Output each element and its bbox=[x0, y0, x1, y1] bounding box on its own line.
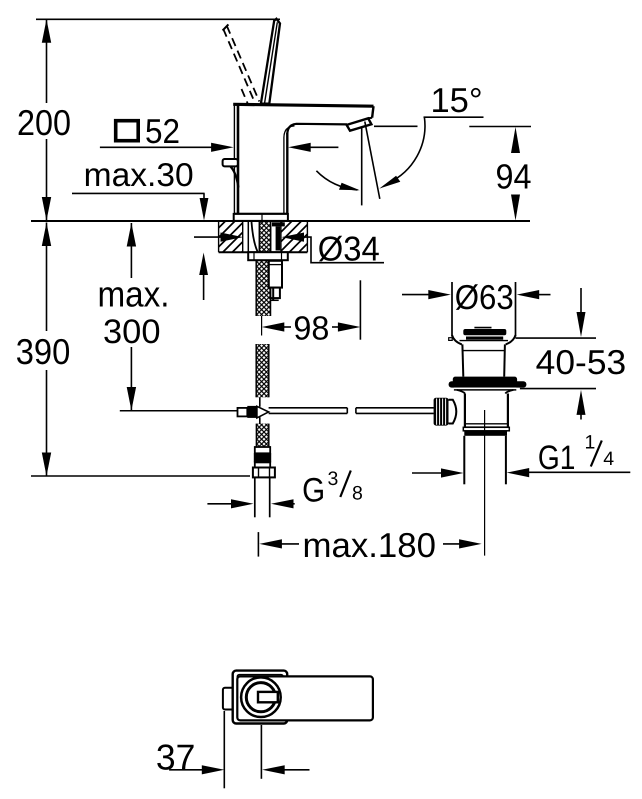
valve seal black bbox=[453, 377, 517, 385]
body right edge outer bbox=[286, 133, 288, 214]
body left edge inner bbox=[237, 104, 240, 214]
390 dimension line bbox=[46, 223, 48, 477]
valve collar bbox=[463, 427, 509, 431]
Ø34 leader bbox=[302, 237, 384, 263]
side tab bbox=[223, 159, 238, 166]
spout mousseur bbox=[347, 118, 372, 130]
seal cone in hole bbox=[247, 222, 249, 252]
200 dimension line bbox=[46, 19, 48, 220]
svg-text:max.30: max.30 bbox=[84, 156, 194, 193]
svg-text:max.: max. bbox=[98, 273, 170, 314]
G 3/8 dim arrows bbox=[207, 503, 233, 505]
flexible hose middle segment bbox=[256, 344, 269, 397]
svg-text:390: 390 bbox=[16, 331, 71, 372]
max.30 arrow up to deck bottom bbox=[203, 270, 205, 300]
rod cone at hose bbox=[257, 406, 269, 418]
svg-text:15°: 15° bbox=[431, 82, 483, 120]
52 dimension line right bbox=[309, 146, 338, 148]
lever dashed position bbox=[223, 26, 259, 104]
Ø34 dimension line left bbox=[194, 236, 224, 238]
base plate bbox=[234, 214, 288, 221]
94 arrow up bbox=[511, 127, 520, 153]
svg-text:94: 94 bbox=[496, 157, 532, 196]
svg-text:max.180: max.180 bbox=[303, 527, 437, 565]
lever inner line bbox=[265, 22, 278, 103]
svg-text:Ø63: Ø63 bbox=[455, 279, 514, 317]
rod coupler small bbox=[238, 408, 248, 417]
svg-text:G: G bbox=[302, 472, 325, 510]
top view cartridge outer circle bbox=[241, 677, 281, 717]
top view keyway bbox=[258, 692, 278, 702]
arc arrow at slanted line bbox=[379, 176, 400, 189]
svg-text:40-53: 40-53 bbox=[536, 344, 627, 382]
max300 arrow up bbox=[127, 223, 136, 247]
390 arrow up bbox=[42, 223, 51, 247]
390 bottom reference line bbox=[31, 475, 250, 477]
angle arc left bbox=[316, 171, 357, 190]
max300 dimension line bbox=[130, 223, 132, 411]
svg-text:8: 8 bbox=[352, 483, 363, 505]
Ø63 dim line left + arrow bbox=[402, 294, 430, 296]
arm underside bbox=[287, 124, 347, 135]
top view body square inner bbox=[237, 675, 283, 720]
valve neck lines bbox=[460, 340, 509, 342]
flexible hose lower segment bbox=[256, 424, 268, 447]
deck bottom line bbox=[219, 251, 308, 253]
svg-text:G1: G1 bbox=[538, 439, 576, 477]
G1 1/4 dim arrows bbox=[412, 472, 443, 474]
deck line bbox=[31, 220, 530, 222]
pop-up rod horizontal left bbox=[120, 410, 238, 412]
valve centerline bbox=[484, 410, 486, 556]
spout tip extension line bbox=[359, 280, 361, 339]
svg-text:52: 52 bbox=[145, 113, 180, 151]
svg-text:3: 3 bbox=[328, 468, 339, 490]
flexible hose upper segment bbox=[256, 260, 270, 316]
top view cartridge inner circle bbox=[246, 683, 275, 712]
390 arrow down bbox=[42, 453, 51, 477]
deck hatched block left bbox=[219, 222, 243, 253]
mounting nut bbox=[248, 252, 288, 260]
pop-up rod guide (black T) bbox=[272, 222, 285, 226]
98 arrow left-pointing bbox=[262, 322, 285, 331]
svg-text:37: 37 bbox=[156, 737, 196, 778]
valve push cap bbox=[474, 327, 491, 329]
knob collar bbox=[449, 400, 457, 424]
Ø34 arrow right-pointing bbox=[221, 233, 244, 242]
svg-text:Ø34: Ø34 bbox=[318, 230, 380, 268]
max300 arrow down bbox=[127, 387, 136, 411]
valve body bbox=[457, 390, 465, 394]
52 arrow right-pointing bbox=[211, 143, 234, 152]
side curve under tab bbox=[231, 167, 239, 188]
37 extension lines bbox=[223, 711, 225, 788]
37 dim line + arrows bbox=[169, 769, 205, 771]
threaded shank through deck bbox=[259, 222, 270, 253]
max.30 leader line bbox=[72, 192, 205, 194]
15deg underline bbox=[424, 116, 484, 118]
hose end nut bbox=[253, 468, 275, 478]
hose end fitting bbox=[255, 447, 270, 453]
40-53 arrow down bbox=[580, 288, 582, 315]
max.30 arrow down to deck bbox=[203, 193, 205, 200]
body bottom line bbox=[234, 213, 287, 215]
top view lever rectangle bbox=[237, 676, 373, 720]
top view tab bbox=[223, 688, 235, 710]
lever handle solid bbox=[261, 19, 280, 104]
slanted 15deg line bbox=[365, 122, 380, 199]
40-53 bottom reference line bbox=[520, 388, 596, 390]
40-53 top reference line bbox=[516, 337, 597, 339]
hose centerline upper bbox=[261, 316, 263, 336]
body left edge outer bbox=[233, 104, 235, 214]
52 arrow left-pointing bbox=[288, 143, 311, 152]
valve flare shoulders bbox=[452, 335, 462, 344]
arm right end edge bbox=[372, 106, 373, 118]
arc arrow at vertical line bbox=[339, 183, 360, 191]
deck hatched block right bbox=[281, 222, 308, 253]
94 arrow down bbox=[511, 195, 520, 221]
94 top reference line bbox=[469, 126, 531, 128]
top view body square outer bbox=[233, 671, 288, 724]
rod coupler black bbox=[247, 406, 257, 418]
98 arrow right-pointing bbox=[332, 326, 341, 328]
valve side knob bbox=[434, 398, 449, 426]
svg-text:4: 4 bbox=[603, 448, 614, 470]
Ø63 dim line right + arrow bbox=[517, 290, 540, 299]
pop-up rod housing bbox=[269, 261, 282, 288]
rod tube segment 1 bbox=[269, 408, 348, 414]
Ø34 arrow left-pointing bbox=[282, 233, 305, 242]
G3/8 pipe lines bbox=[254, 477, 256, 517]
angle arc right bbox=[388, 117, 425, 183]
Ø63 extension/side lines bbox=[451, 282, 453, 337]
body top edge bbox=[233, 104, 373, 106]
52 dimension line left bbox=[100, 146, 213, 148]
40-53 arrow up bbox=[580, 412, 582, 420]
valve tailpipe bbox=[463, 436, 465, 485]
body right edge inner bbox=[284, 126, 295, 214]
svg-text:98: 98 bbox=[293, 310, 329, 347]
svg-text:1: 1 bbox=[585, 432, 596, 454]
square symbol of 52 bbox=[116, 121, 139, 141]
svg-text:300: 300 bbox=[103, 313, 161, 351]
rod tube segment 2 bbox=[356, 408, 434, 414]
vertical stream line bbox=[361, 128, 363, 206]
max.180 dimension bbox=[257, 532, 259, 557]
svg-text:200: 200 bbox=[17, 102, 71, 143]
top reference line bbox=[36, 18, 280, 20]
seal bottom rim bbox=[454, 388, 516, 390]
lever dashed tip bbox=[223, 24, 229, 30]
200 arrow down bbox=[42, 197, 51, 221]
200 arrow up bbox=[42, 19, 51, 43]
